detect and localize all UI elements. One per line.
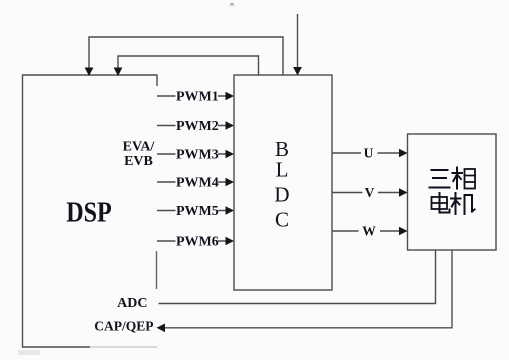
svg-text:CAP/QEP: CAP/QEP (94, 319, 153, 334)
svg-text:PWM5: PWM5 (176, 204, 219, 219)
svg-text:PWM6: PWM6 (176, 235, 219, 250)
svg-text:DSP: DSP (66, 197, 112, 229)
svg-text:PWM3: PWM3 (176, 148, 219, 163)
svg-text:ADC: ADC (117, 296, 147, 311)
svg-text:W: W (362, 224, 376, 239)
svg-text:PWM2: PWM2 (176, 119, 219, 134)
svg-text:EVB: EVB (124, 154, 153, 169)
svg-text:C: C (275, 207, 289, 231)
svg-text:D: D (274, 183, 289, 207)
svg-text:U: U (364, 146, 374, 161)
svg-text:L: L (276, 158, 289, 182)
svg-text:V: V (365, 185, 375, 200)
svg-text:EVA/: EVA/ (123, 139, 156, 154)
svg-text:PWM1: PWM1 (176, 90, 219, 105)
svg-text:PWM4: PWM4 (176, 176, 219, 191)
